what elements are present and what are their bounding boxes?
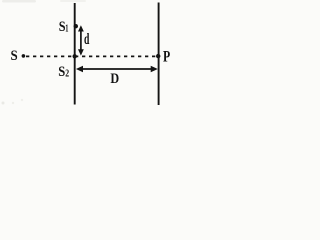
svg-text:d: d [84,31,90,48]
svg-text:S: S [11,48,18,64]
dashed axis S to P [26,55,158,57]
screen dot P [156,54,160,58]
screen line [158,3,160,106]
svg-text:2: 2 [65,69,69,80]
svg-text:P: P [163,49,170,66]
faint scan smudges [2,0,36,3]
axis dot at barrier [73,54,77,58]
D dimension arrow (double-headed horizontal) [80,68,154,70]
source dot S [22,54,26,58]
svg-text:S: S [58,64,65,80]
d dimension arrow (double-headed vertical) [80,30,82,52]
slit dot S1 [74,24,78,28]
slit barrier line [74,3,76,105]
svg-text:D: D [110,71,119,87]
svg-text:1: 1 [65,23,68,34]
